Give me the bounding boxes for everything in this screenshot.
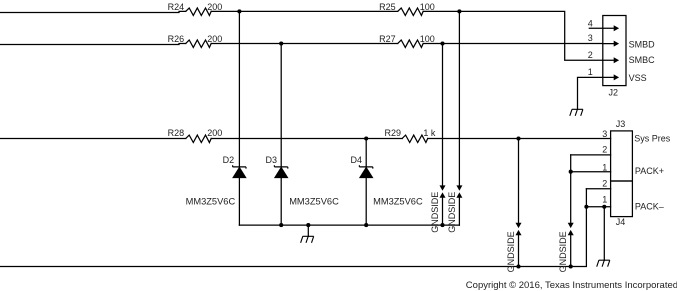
svg-text:200: 200 — [207, 34, 222, 44]
svg-text:100: 100 — [420, 34, 435, 44]
svg-text:2: 2 — [602, 145, 607, 155]
svg-text:GNDSIDE: GNDSIDE — [447, 192, 457, 233]
svg-text:2: 2 — [588, 50, 593, 60]
svg-text:2: 2 — [602, 179, 607, 189]
svg-text:R27: R27 — [379, 34, 396, 44]
svg-text:PACK+: PACK+ — [635, 166, 664, 176]
svg-text:R29: R29 — [384, 128, 401, 138]
svg-text:3: 3 — [602, 129, 607, 139]
svg-text:R26: R26 — [168, 34, 185, 44]
svg-text:4: 4 — [588, 19, 593, 29]
svg-text:SMBC: SMBC — [629, 55, 656, 65]
svg-text:D3: D3 — [265, 155, 277, 165]
svg-text:GNDSIDE: GNDSIDE — [558, 231, 568, 272]
svg-text:J4: J4 — [616, 217, 626, 227]
svg-text:MM3Z5V6C: MM3Z5V6C — [289, 196, 339, 206]
svg-text:3: 3 — [588, 33, 593, 43]
svg-text:1: 1 — [602, 195, 607, 205]
svg-text:R24: R24 — [168, 2, 185, 12]
svg-text:GNDSIDE: GNDSIDE — [506, 231, 516, 272]
svg-text:200: 200 — [207, 128, 222, 138]
svg-text:D4: D4 — [350, 155, 362, 165]
svg-text:100: 100 — [420, 2, 435, 12]
svg-text:PACK–: PACK– — [635, 202, 664, 212]
svg-text:1: 1 — [602, 163, 607, 173]
svg-text:D2: D2 — [223, 155, 235, 165]
svg-text:J3: J3 — [616, 119, 626, 129]
svg-text:Sys Pres: Sys Pres — [634, 133, 671, 143]
svg-text:R28: R28 — [168, 128, 185, 138]
svg-text:GNDSIDE: GNDSIDE — [430, 192, 440, 233]
svg-text:MM3Z5V6C: MM3Z5V6C — [186, 196, 236, 206]
svg-text:1: 1 — [588, 67, 593, 77]
svg-text:MM3Z5V6C: MM3Z5V6C — [373, 196, 423, 206]
svg-text:Copyright © 2016, Texas Instru: Copyright © 2016, Texas Instruments Inco… — [466, 280, 677, 291]
svg-text:200: 200 — [207, 2, 222, 12]
svg-text:SMBD: SMBD — [629, 39, 656, 49]
svg-text:1 k: 1 k — [423, 128, 436, 138]
svg-text:R25: R25 — [379, 2, 396, 12]
svg-text:J2: J2 — [609, 87, 619, 97]
svg-text:VSS: VSS — [629, 73, 647, 83]
